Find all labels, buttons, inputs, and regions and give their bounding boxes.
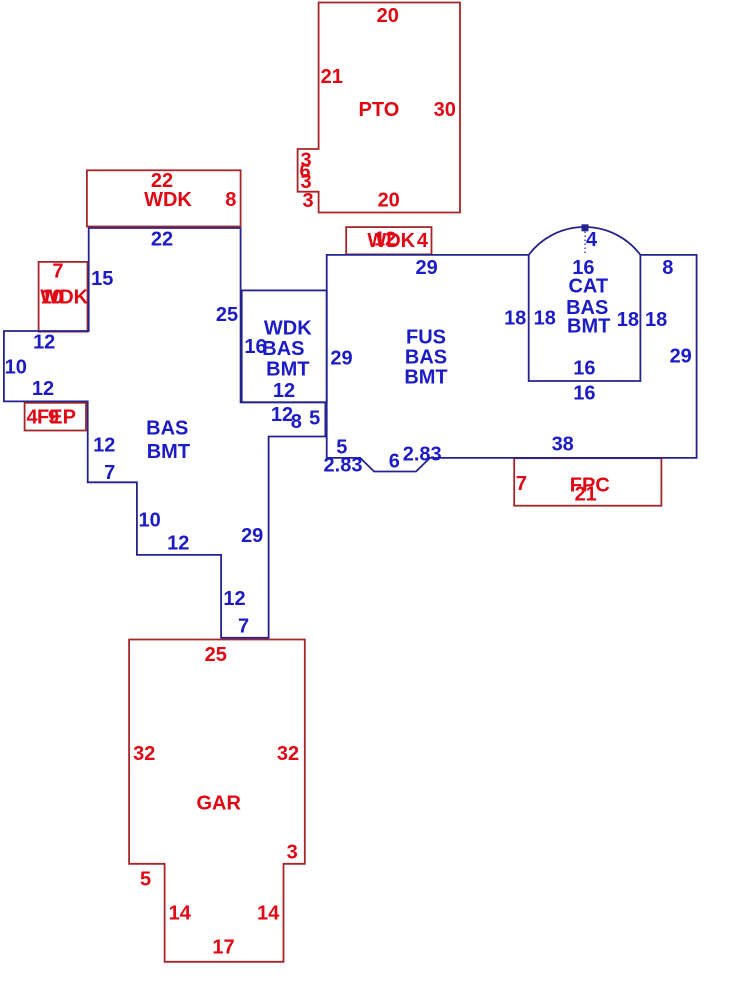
svg-text:8: 8 [291,411,302,433]
svg-text:8: 8 [662,257,673,279]
WDK4 red box [346,227,431,254]
svg-text:12: 12 [32,378,54,400]
BAS BMT outline [4,228,326,638]
WDK top-left red box [87,170,241,226]
svg-text:21: 21 [321,66,343,88]
svg-text:5: 5 [309,408,320,430]
svg-text:BMT: BMT [404,367,447,389]
svg-text:12: 12 [33,331,55,353]
svg-text:CAT: CAT [568,276,608,298]
svg-text:4: 4 [586,229,598,251]
svg-text:20: 20 [377,5,399,27]
svg-text:BMT: BMT [567,315,610,337]
WDK BAS BMT box [242,290,327,402]
arch apex dotted line [584,232,586,255]
svg-text:3: 3 [287,842,298,864]
svg-text:29: 29 [415,257,437,279]
svg-text:17: 17 [212,937,234,959]
svg-text:18: 18 [617,309,639,331]
svg-text:BMT: BMT [147,441,190,463]
FPC red box [514,458,661,506]
svg-text:2.83: 2.83 [403,444,442,466]
svg-text:29: 29 [241,525,263,547]
PTO outline [298,3,460,213]
svg-text:BAS: BAS [146,417,188,439]
svg-text:20: 20 [378,190,400,212]
arch apex marker [582,224,589,231]
svg-text:8: 8 [225,189,236,211]
svg-text:7: 7 [238,616,249,638]
svg-text:GAR: GAR [196,792,241,814]
svg-text:5: 5 [140,868,151,890]
svg-text:FUS: FUS [406,327,446,349]
svg-text:7: 7 [516,473,527,495]
svg-text:30: 30 [434,99,456,121]
svg-text:3: 3 [302,190,313,212]
svg-text:29: 29 [670,345,692,367]
FEP red box [25,403,86,431]
svg-text:BMT: BMT [266,359,309,381]
svg-text:18: 18 [504,307,526,329]
svg-text:12: 12 [273,380,295,402]
svg-text:32: 32 [277,743,299,765]
svg-text:14: 14 [169,903,192,925]
svg-text:21: 21 [575,483,597,505]
svg-text:12: 12 [93,434,115,456]
svg-text:12: 12 [223,588,245,610]
svg-text:16: 16 [573,382,595,404]
svg-text:7: 7 [52,260,63,282]
svg-text:18: 18 [534,307,556,329]
svg-text:6: 6 [389,451,400,473]
svg-text:WDK: WDK [144,189,192,211]
svg-text:15: 15 [91,268,113,290]
FUS BAS BMT outline with arch [327,227,697,471]
svg-text:BAS: BAS [405,347,447,369]
svg-text:FEP: FEP [37,407,76,429]
svg-text:38: 38 [552,433,574,455]
svg-text:12: 12 [167,533,189,555]
svg-text:WDK: WDK [367,230,415,252]
svg-text:29: 29 [330,347,352,369]
svg-text:4: 4 [417,230,429,252]
svg-text:18: 18 [645,309,667,331]
svg-text:25: 25 [205,644,227,666]
svg-text:14: 14 [257,903,280,925]
svg-text:10: 10 [5,357,27,379]
svg-text:25: 25 [216,304,238,326]
CAT BAS BMT walls [529,255,641,381]
svg-text:10: 10 [138,510,160,532]
svg-text:16: 16 [573,358,595,380]
svg-text:WDK: WDK [264,318,312,340]
svg-text:22: 22 [151,229,173,251]
svg-text:7: 7 [104,462,115,484]
svg-text:PTO: PTO [359,99,400,121]
svg-text:2.83: 2.83 [324,455,363,477]
WDK small red box [39,262,88,332]
svg-text:WDK: WDK [40,287,88,309]
svg-text:BAS: BAS [262,338,304,360]
GAR outline [129,640,305,962]
svg-text:32: 32 [133,743,155,765]
